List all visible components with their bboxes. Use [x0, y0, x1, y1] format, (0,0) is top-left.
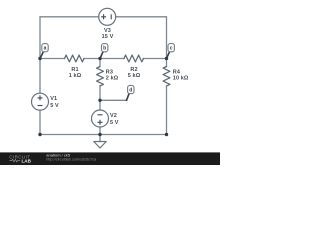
svg-text:5 V: 5 V: [50, 103, 59, 109]
svg-text:10 kΩ: 10 kΩ: [173, 76, 189, 82]
svg-text:2 kΩ: 2 kΩ: [106, 76, 119, 82]
svg-text:15 V: 15 V: [102, 34, 114, 40]
svg-text:5 V: 5 V: [110, 120, 119, 126]
svg-text:anatiom / ck5: anatiom / ck5: [46, 152, 71, 157]
svg-text:5 kΩ: 5 kΩ: [128, 73, 141, 79]
svg-text:b: b: [103, 46, 106, 52]
svg-text:1 kΩ: 1 kΩ: [69, 73, 82, 79]
svg-text:http://circuitlab.com/c6x5c7ca: http://circuitlab.com/c6x5c7ca: [46, 158, 97, 162]
svg-text:d: d: [129, 87, 132, 93]
svg-text:c: c: [170, 46, 173, 52]
svg-text:a: a: [44, 46, 47, 52]
svg-text:V2: V2: [110, 113, 117, 119]
svg-text:LAB: LAB: [22, 159, 32, 164]
svg-text:V1: V1: [50, 96, 57, 102]
